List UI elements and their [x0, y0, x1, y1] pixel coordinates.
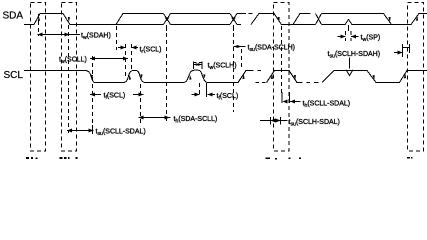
arrowhead on SCL trapezoid rise [241, 74, 247, 80]
clipped label Repeated Start under repeated start box [266, 158, 302, 160]
reference line at SCL pulse1 fall end x=140.5 [140, 84, 142, 123]
svg-text:SCL: SCL [4, 70, 24, 81]
svg-text:tf(SCL): tf(SCL) [217, 93, 239, 102]
clipped label Stop under right stop box [407, 157, 413, 159]
dimension tr(SCL) arrows at x=125.5 and x=131.5 [118, 46, 138, 50]
arrowhead on SCL first fall [89, 74, 94, 80]
wire: SDA crossover X3 [316, 14, 322, 25]
wire: SDA crossover X1 [164, 14, 171, 25]
reference line at crossover X1 x=166.5 [166, 25, 168, 31]
reference line at SCL fall x=92.5 [92, 56, 94, 134]
arrowhead marker at crossover X1 [165, 17, 170, 21]
dimension tw(SDAH) arrow between x=38.5 and x=68.5 [38, 33, 81, 37]
svg-text:SDA: SDA [3, 11, 24, 22]
svg-text:tw(SCLH): tw(SCLH) [208, 63, 237, 72]
tick lines for tw(SP) [345, 31, 347, 41]
svg-text:tsu(SCLL-SDAL): tsu(SCLL-SDAL) [96, 129, 146, 138]
svg-text:tsu(SCLH-SDAH): tsu(SCLH-SDAH) [328, 51, 381, 60]
wire: SCL low then clock trapezoid with break [207, 71, 265, 83]
reference line at SCL rise end x=131.5 [131, 44, 133, 70]
arrowhead on SDA stop rise [414, 16, 420, 22]
dimension tw(SP) inward arrows [338, 35, 359, 39]
svg-text:th(SCLL-SDAL): th(SCLL-SDAL) [303, 101, 351, 110]
reference line at crossover X2 x=233.5 [233, 25, 235, 31]
reference line at SDA second rise x=116.5 [116, 26, 118, 50]
open arrowhead onto SCL line [346, 70, 353, 76]
dimension tw(SCLH) ticks and arrow over pulse 2 [194, 62, 203, 70]
arrowhead on SCL repeated-start fall [292, 74, 298, 80]
ticks and arrow right of tsu(SCLH-SDAH) label [394, 44, 410, 57]
reference line at SCL trapezoid rise x=241.5 [241, 49, 243, 68]
dashed box: repeated start condition [274, 3, 290, 152]
svg-text:tw(SCLL): tw(SCLL) [59, 57, 87, 66]
arrowhead on SCL pulse2 rise [188, 75, 193, 81]
spike leader line below SDA spike [348, 25, 350, 31]
arrowhead on SCL pulse1 rise [127, 75, 132, 81]
arrowhead on SDA repeated-start fall [276, 16, 282, 22]
wire: SDA high rail falling at right [322, 14, 392, 25]
dashed box: start condition (left) [62, 3, 77, 152]
arrowhead on SCL pulse2 fall [202, 73, 207, 79]
wire: SDA pulse between stop and start boxes [24, 14, 116, 25]
wire: SDA low rail with suppressed spike and stop rise [322, 14, 427, 25]
reference line at SCL pulse2 fall start x=199.5 [199, 83, 201, 97]
clipped label Start under start box [60, 157, 78, 159]
svg-text:tf(SCL): tf(SCL) [104, 93, 126, 102]
dimension tw(SCLL) arrow between x=92.5 and x=125.5 [90, 57, 128, 61]
reference line at SDA repeated-start fall end x=281.5 [281, 26, 283, 96]
svg-text:tr(SCL): tr(SCL) [140, 47, 162, 56]
dimension th(SCLL-SDAL) ticks and left arrows at x=282 and x=289 [282, 92, 301, 104]
svg-text:tw(SDAH): tw(SDAH) [81, 33, 111, 42]
dimension tf(SCL) second at pulse2 fall [192, 86, 216, 97]
wire: SCL clock pulse 1 [95, 70, 145, 82]
dashed box: stop condition (left) [31, 3, 46, 152]
svg-text:tw(SP): tw(SP) [361, 35, 381, 44]
dimension tsu(SCLH-SDAL) ticks at x=271 and x=280.5 [260, 117, 288, 125]
svg-text:tsu(SDA-SCLH): tsu(SDA-SCLH) [248, 45, 296, 54]
arrowhead on SCL repeated-start rise [269, 74, 275, 80]
reference line at SDA rise midpoint x=38.5 [38, 14, 40, 36]
wire: SDA crossover X2 [230, 14, 237, 25]
arrowhead marker at crossover X2 [231, 17, 236, 21]
leader from tsu(SCLH-SDAH) down to SCL high [349, 58, 351, 69]
dimension tsu(SDA-SCLH) small arrow between x=233.5 and x=241.5 [234, 45, 246, 48]
wire: SDA rise and repeated-start fall [251, 14, 316, 25]
wire: SCL repeated-start clock pulse [267, 71, 319, 83]
wire: SDA bus rails to second crossover [171, 14, 231, 25]
dimension tf(SCL) first: outward arrows toward both falls [90, 93, 144, 97]
dashed box: stop condition (right) [408, 3, 424, 152]
svg-text:tsu(SCLH-SDAL): tsu(SCLH-SDAL) [289, 119, 340, 128]
arrowhead on SCL pulse1 fall [139, 73, 144, 79]
arrowhead on SDA first fall [66, 16, 71, 22]
wire: SCL high and first fall [24, 71, 95, 83]
arrowhead on SCL right fall [371, 74, 377, 80]
arrowhead on SDA first rise [36, 16, 41, 22]
wire: SCL clock pulse 2 [145, 70, 208, 83]
arrowhead on SDA right fall [387, 16, 393, 22]
dimension th(SDA-SCLL) arrow between x=140.5 and x=166.5 [139, 116, 171, 120]
reference line at SCL pulse2 fall end x=206.5 [206, 83, 208, 88]
reference line at SCL rise start x=125.5 [125, 44, 127, 79]
arrowhead on SCL stop rise [403, 73, 409, 79]
svg-text:th(SDA-SCLL): th(SDA-SCLL) [174, 116, 218, 125]
clipped label Stop under left stop box [26, 157, 38, 159]
wire: SDA bus rails to first crossover [116, 14, 164, 25]
wire: SCL right high section, fall and stop rise [322, 71, 427, 83]
wire: SDA stubs and break after X2 [237, 14, 253, 25]
dimension tsu(SCLL-SDAL) arrow between x=68.5 and x=92.5 [67, 125, 94, 134]
reference line at SDA fall x=68.5 [68, 25, 70, 133]
